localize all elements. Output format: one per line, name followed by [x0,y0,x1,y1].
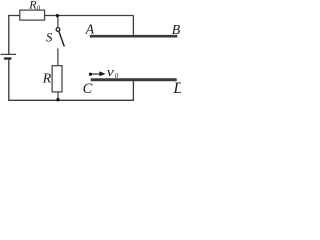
wire corner down to line AB [132,16,134,35]
svg-text:B: B [172,22,181,37]
wire right connector up to line CD [132,81,134,101]
svg-text:A: A [85,22,95,37]
v0 arrowhead [99,71,105,76]
switch S stub from junction [57,16,59,28]
v0 arrow shaft [92,73,101,75]
switch S hinge circle [56,28,60,32]
battery E short thick plate [4,57,12,59]
wire top-left from battery to R0 [9,16,20,55]
resistor R [52,66,62,92]
svg-text:S: S [46,30,53,45]
wire R bottom to bottom rail [57,92,59,100]
wire battery negative down to bottom rail [8,60,10,101]
junction dot at switch branch [56,14,59,17]
resistor R0 [20,10,45,20]
svg-text:D: D [173,80,182,97]
battery E long plate [1,53,17,55]
switch S blade [59,31,65,46]
svg-text:R: R [42,71,52,86]
wire switch fixed contact to resistor R [57,49,59,66]
conductor line C-D [91,78,177,81]
v0 velocity dot [89,73,92,76]
bottom wire to right corner [8,99,134,101]
conductor line A-B [90,35,178,38]
junction dot bottom [56,98,59,101]
svg-text:C: C [83,81,93,97]
svg-text:0: 0 [115,71,119,80]
svg-text:v: v [107,65,115,79]
wire R0 to top-right corner [45,15,134,17]
